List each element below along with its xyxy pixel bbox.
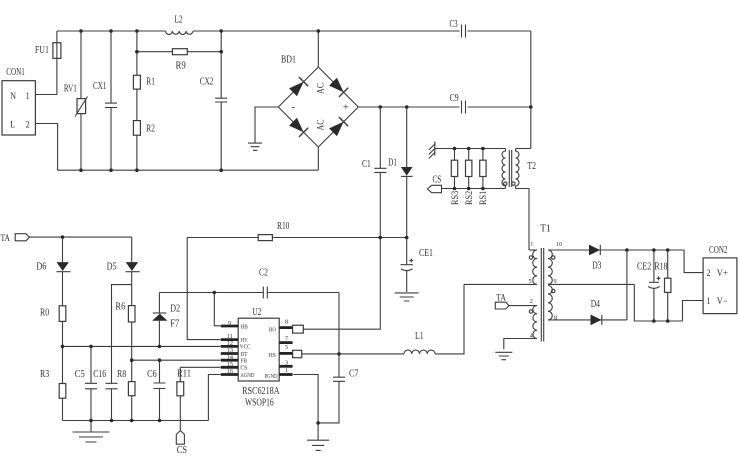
- svg-text:1: 1: [285, 367, 288, 374]
- svg-text:R9: R9: [176, 61, 186, 72]
- svg-text:T1: T1: [540, 223, 550, 234]
- svg-text:D5: D5: [107, 261, 117, 272]
- svg-text:15: 15: [227, 361, 233, 368]
- svg-text:R3: R3: [40, 369, 49, 380]
- svg-text:9: 9: [228, 320, 231, 327]
- svg-text:C16: C16: [93, 369, 106, 380]
- svg-text:RS3: RS3: [450, 190, 460, 205]
- svg-text:C1: C1: [362, 159, 371, 170]
- svg-text:C2: C2: [259, 267, 268, 278]
- svg-text:FU1: FU1: [35, 45, 49, 56]
- svg-text:U2: U2: [252, 307, 261, 318]
- svg-text:3: 3: [285, 359, 288, 366]
- svg-text:R8: R8: [117, 369, 126, 380]
- svg-text:9: 9: [554, 278, 557, 285]
- svg-text:F7: F7: [170, 319, 179, 330]
- svg-text:CS: CS: [240, 365, 247, 372]
- svg-text:5: 5: [529, 278, 532, 285]
- svg-text:+: +: [343, 101, 349, 113]
- svg-text:10: 10: [556, 241, 562, 248]
- svg-text:CON1: CON1: [6, 67, 25, 78]
- svg-text:AC: AC: [315, 83, 325, 94]
- svg-text:BD1: BD1: [281, 55, 296, 66]
- svg-text:D3: D3: [592, 261, 601, 272]
- svg-text:RSC6218A: RSC6218A: [242, 386, 280, 397]
- svg-text:T2: T2: [527, 161, 536, 172]
- svg-text:D6: D6: [36, 261, 46, 272]
- svg-text:V+: V+: [717, 268, 728, 278]
- svg-text:L2: L2: [175, 15, 183, 26]
- svg-text:CX1: CX1: [93, 81, 106, 92]
- svg-text:14: 14: [227, 354, 233, 361]
- svg-text:C5: C5: [75, 369, 85, 380]
- svg-text:L1: L1: [415, 331, 424, 342]
- svg-text:8: 8: [285, 318, 288, 325]
- svg-text:CE1: CE1: [419, 248, 433, 259]
- svg-text:1: 1: [707, 296, 711, 306]
- svg-text:2: 2: [26, 120, 30, 130]
- svg-text:16: 16: [227, 368, 233, 375]
- svg-text:HB: HB: [240, 323, 247, 330]
- svg-text:12: 12: [227, 340, 233, 347]
- svg-text:C9: C9: [450, 93, 459, 104]
- svg-text:HS: HS: [269, 352, 277, 359]
- svg-text:R2: R2: [146, 124, 155, 135]
- svg-text:V−: V−: [717, 296, 728, 306]
- svg-text:C6: C6: [147, 369, 157, 380]
- svg-text:D4: D4: [591, 299, 601, 310]
- svg-text:AC: AC: [315, 120, 325, 131]
- svg-text:PGND: PGND: [265, 373, 278, 380]
- svg-text:TA: TA: [1, 233, 11, 243]
- svg-text:RS2: RS2: [464, 191, 474, 205]
- svg-text:4: 4: [530, 333, 533, 340]
- svg-text:L: L: [10, 120, 15, 130]
- svg-text:7: 7: [285, 335, 288, 342]
- svg-text:WSOP16: WSOP16: [245, 398, 274, 409]
- svg-text:8: 8: [554, 315, 557, 322]
- svg-text:VCC: VCC: [240, 344, 251, 351]
- svg-text:2: 2: [707, 268, 711, 278]
- svg-text:N: N: [10, 91, 16, 101]
- svg-text:1: 1: [26, 91, 30, 101]
- svg-text:FB: FB: [240, 357, 247, 364]
- svg-text:HO: HO: [269, 327, 276, 334]
- svg-text:CON2: CON2: [709, 245, 728, 256]
- svg-text:TA: TA: [496, 293, 506, 303]
- svg-text:CS: CS: [177, 445, 187, 456]
- svg-text:RS1: RS1: [478, 191, 488, 205]
- svg-text:5: 5: [285, 344, 288, 351]
- svg-text:AGND: AGND: [240, 372, 255, 379]
- svg-text:1: 1: [530, 241, 533, 248]
- svg-text:R18: R18: [654, 261, 667, 272]
- svg-text:CE2: CE2: [637, 261, 651, 272]
- svg-text:RV1: RV1: [64, 84, 77, 95]
- svg-text:CX2: CX2: [200, 77, 214, 88]
- svg-text:2: 2: [530, 298, 533, 305]
- svg-text:R0: R0: [40, 308, 49, 319]
- svg-text:R11: R11: [177, 369, 191, 380]
- svg-text:R1: R1: [146, 77, 155, 88]
- svg-text:D2: D2: [170, 304, 180, 315]
- svg-text:C3: C3: [450, 19, 458, 30]
- svg-text:R6: R6: [115, 301, 125, 312]
- svg-text:D1: D1: [388, 158, 397, 169]
- svg-text:C7: C7: [349, 369, 359, 380]
- svg-text:R10: R10: [277, 221, 289, 232]
- svg-text:-: -: [292, 101, 296, 113]
- svg-text:CS: CS: [433, 174, 442, 185]
